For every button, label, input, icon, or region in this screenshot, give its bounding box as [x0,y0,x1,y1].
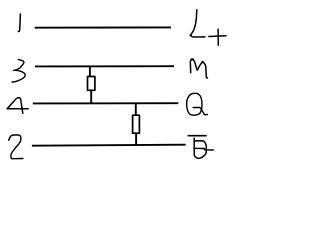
wire: resistor R1 bottom to line 4 [90,90,92,103]
resistor R1 body [88,77,95,91]
net label D-bar : letter D top bar and upper bowl [194,141,206,153]
net label L+ : letter L [191,10,205,37]
net label D-bar : letter D lower bowl [194,153,206,159]
terminal label 3 [12,60,25,83]
net label D-bar : overline [188,135,206,137]
net label L+ : plus sign [209,29,226,45]
terminal label 1 [18,14,20,32]
wire: line 4 down to resistor R2 top [135,103,137,116]
wire: resistor R2 bottom to line 2 [135,133,137,145]
net label D-bar : letter D left vertical [193,138,195,155]
wire line 2 (terminal 2 to D-bar) [32,145,186,146]
wire line 3 (terminal 3 to M) [35,65,174,67]
net label M [190,59,207,78]
resistor R2 body [133,115,140,133]
wire: line 3 down to resistor R1 top [89,66,91,77]
net label Q : bowl [187,93,202,115]
terminal label 2 [9,135,23,159]
net label Q : tail [193,107,207,114]
wire line 4 (terminal 4 to Q) [33,102,179,104]
net label L+ : corner dot of L [190,34,192,36]
net label D-bar : middle horizontal stroke [194,148,214,150]
terminal label 4 [7,98,28,114]
wire line 1 (terminal 1 to L+) [35,26,171,28]
